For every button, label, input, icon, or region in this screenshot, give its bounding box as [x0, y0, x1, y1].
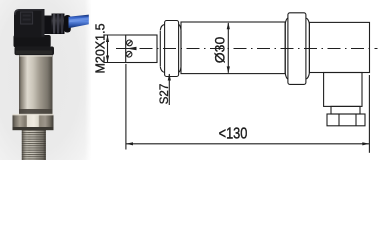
cable gland collar — [64, 15, 71, 33]
S27 arrow — [168, 74, 171, 81]
emboss square on connector — [21, 12, 33, 24]
connector cap ring — [15, 47, 55, 56]
dia 30 arrow up — [227, 22, 230, 29]
cable gland nut — [52, 14, 65, 35]
dia 30 arrow down — [227, 66, 230, 73]
steel cylinder body of sensor photo — [19, 52, 53, 116]
connector box C terminal strip — [327, 114, 365, 126]
M20X1.5 dimension line — [107, 35, 109, 63]
hex nut 1 chamfer arcs — [160, 24, 181, 72]
connector box B neck — [331, 106, 360, 114]
weep hole circle lower — [126, 51, 132, 57]
centerline — [116, 48, 378, 50]
M20X1.5 arrow up — [106, 35, 109, 42]
hex nut 1 outer edges — [160, 31, 181, 67]
hex nut 2 chamfer arcs — [285, 18, 309, 79]
weep hole slash upper — [127, 41, 131, 45]
centerline arrow at fitting — [126, 47, 136, 50]
M20X1.5 extension line bottom — [104, 62, 126, 64]
M20X1.5 extension line top — [104, 34, 126, 36]
cable gland neck — [45, 16, 52, 35]
svg-text:S27: S27 — [159, 84, 171, 104]
M20X1.5 arrow down — [106, 56, 109, 63]
main cylinder body rectangle — [181, 22, 285, 74]
extension line right for 130 — [368, 75, 370, 153]
threaded stub photo — [22, 130, 46, 160]
hex nut photo — [13, 115, 54, 130]
terminal dividers — [339, 114, 356, 126]
connector base flange — [14, 35, 51, 47]
weep hole circle upper — [126, 40, 132, 46]
hex nut 2 outer edges — [285, 24, 309, 73]
S27 leader line — [168, 74, 170, 105]
hex nut 2 middle band — [288, 13, 306, 85]
technical drawing — [104, 13, 378, 153]
hex nut 1 middle band — [165, 21, 179, 77]
arrow left 130 — [126, 142, 133, 145]
dia 30 dimension line — [227, 23, 229, 73]
pressure fitting rectangle — [126, 35, 157, 63]
blue cable — [69, 15, 89, 29]
dimension line 130 — [126, 143, 370, 145]
arrow right 130 — [362, 142, 369, 145]
DIN connector main body — [14, 9, 45, 38]
svg-text:M20X1.5: M20X1.5 — [94, 23, 108, 73]
photo background — [0, 0, 91, 160]
svg-text:<130: <130 — [219, 125, 248, 143]
connector box A — [324, 73, 362, 107]
extension line left for 130 — [125, 64, 127, 150]
neck ring groove — [19, 109, 53, 115]
weep hole slash lower — [127, 52, 131, 56]
svg-text:Ø30: Ø30 — [212, 37, 228, 64]
connector block rectangle — [309, 22, 369, 72]
